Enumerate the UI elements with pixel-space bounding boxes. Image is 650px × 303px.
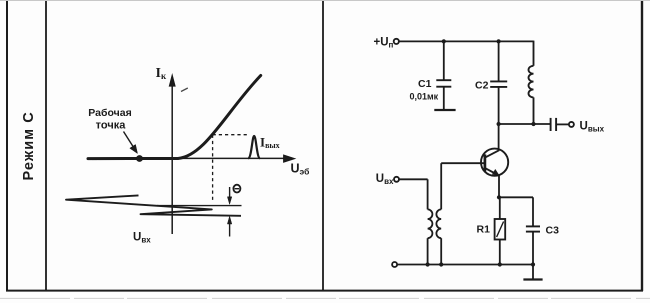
wire top rail [399, 40, 534, 42]
border frame left [6, 0, 8, 291]
wire collector [498, 124, 500, 151]
wire to coil top [533, 41, 535, 66]
capacitor C3 [526, 197, 540, 278]
svg-text:0,01мк: 0,01мк [410, 92, 439, 102]
capacitor C1 [436, 41, 451, 109]
transformer T1 primary [428, 179, 433, 264]
coupling capacitor output [551, 118, 569, 131]
svg-text:R1: R1 [477, 224, 491, 236]
operating point dot [136, 155, 143, 162]
node primary bottom [426, 262, 430, 266]
terminal Uвх [394, 177, 399, 182]
capacitor C2 [490, 41, 507, 124]
ground bar C3 [523, 278, 542, 280]
theta dimension arrows [227, 187, 231, 237]
node C2 top [497, 39, 501, 43]
output current pulse [248, 136, 260, 158]
terminal bottom left [392, 262, 397, 267]
terminal +Un [394, 39, 399, 44]
x-axis Uэб [162, 155, 295, 162]
y-axis Iк [169, 75, 175, 234]
scan artifact bottom faint line [0, 297, 650, 299]
svg-text:Режим С: Режим С [21, 111, 37, 180]
resistor R1 [495, 197, 506, 264]
border frame right [641, 0, 643, 291]
node C3 rail crossing [531, 262, 535, 266]
wire base [441, 162, 485, 164]
wire collector rail [499, 123, 551, 125]
wire input [399, 178, 428, 180]
transfer characteristic curve [88, 76, 261, 159]
stray pen tick [181, 88, 188, 92]
svg-text:C2: C2 [475, 80, 489, 92]
wire emitter [498, 176, 500, 198]
node coil bottom [531, 122, 535, 126]
pointer arrow to operating point [124, 132, 138, 154]
svg-text:C1: C1 [418, 78, 432, 90]
svg-text:точка: точка [96, 120, 127, 132]
theta top reference line [157, 205, 242, 207]
node emitter junction [497, 195, 501, 199]
node secondary bottom [439, 262, 443, 266]
dashed vertical line [212, 135, 214, 203]
terminal Uвых [569, 122, 574, 127]
svg-text:Рабочая: Рабочая [88, 107, 131, 119]
border frame bottom [6, 290, 643, 292]
wire emitter to C3 [499, 196, 533, 198]
transformer T1 secondary [436, 163, 441, 264]
node C1 top [442, 39, 446, 43]
node C2 bottom [497, 122, 501, 126]
ground bar C1 [434, 109, 455, 111]
svg-text:C3: C3 [546, 225, 560, 237]
label theta [233, 185, 240, 193]
dashed horizontal line [213, 134, 249, 136]
border frame panel divider [322, 0, 324, 291]
border frame top faint [0, 0, 650, 2]
inductor L coil [529, 66, 534, 98]
input waveform Uвх [66, 195, 241, 215]
wire coil bottom [533, 97, 535, 124]
transistor VT1 [481, 149, 508, 176]
node R1 bottom [498, 262, 502, 266]
wire bottom rail [397, 264, 533, 266]
border frame column divider [45, 0, 47, 291]
